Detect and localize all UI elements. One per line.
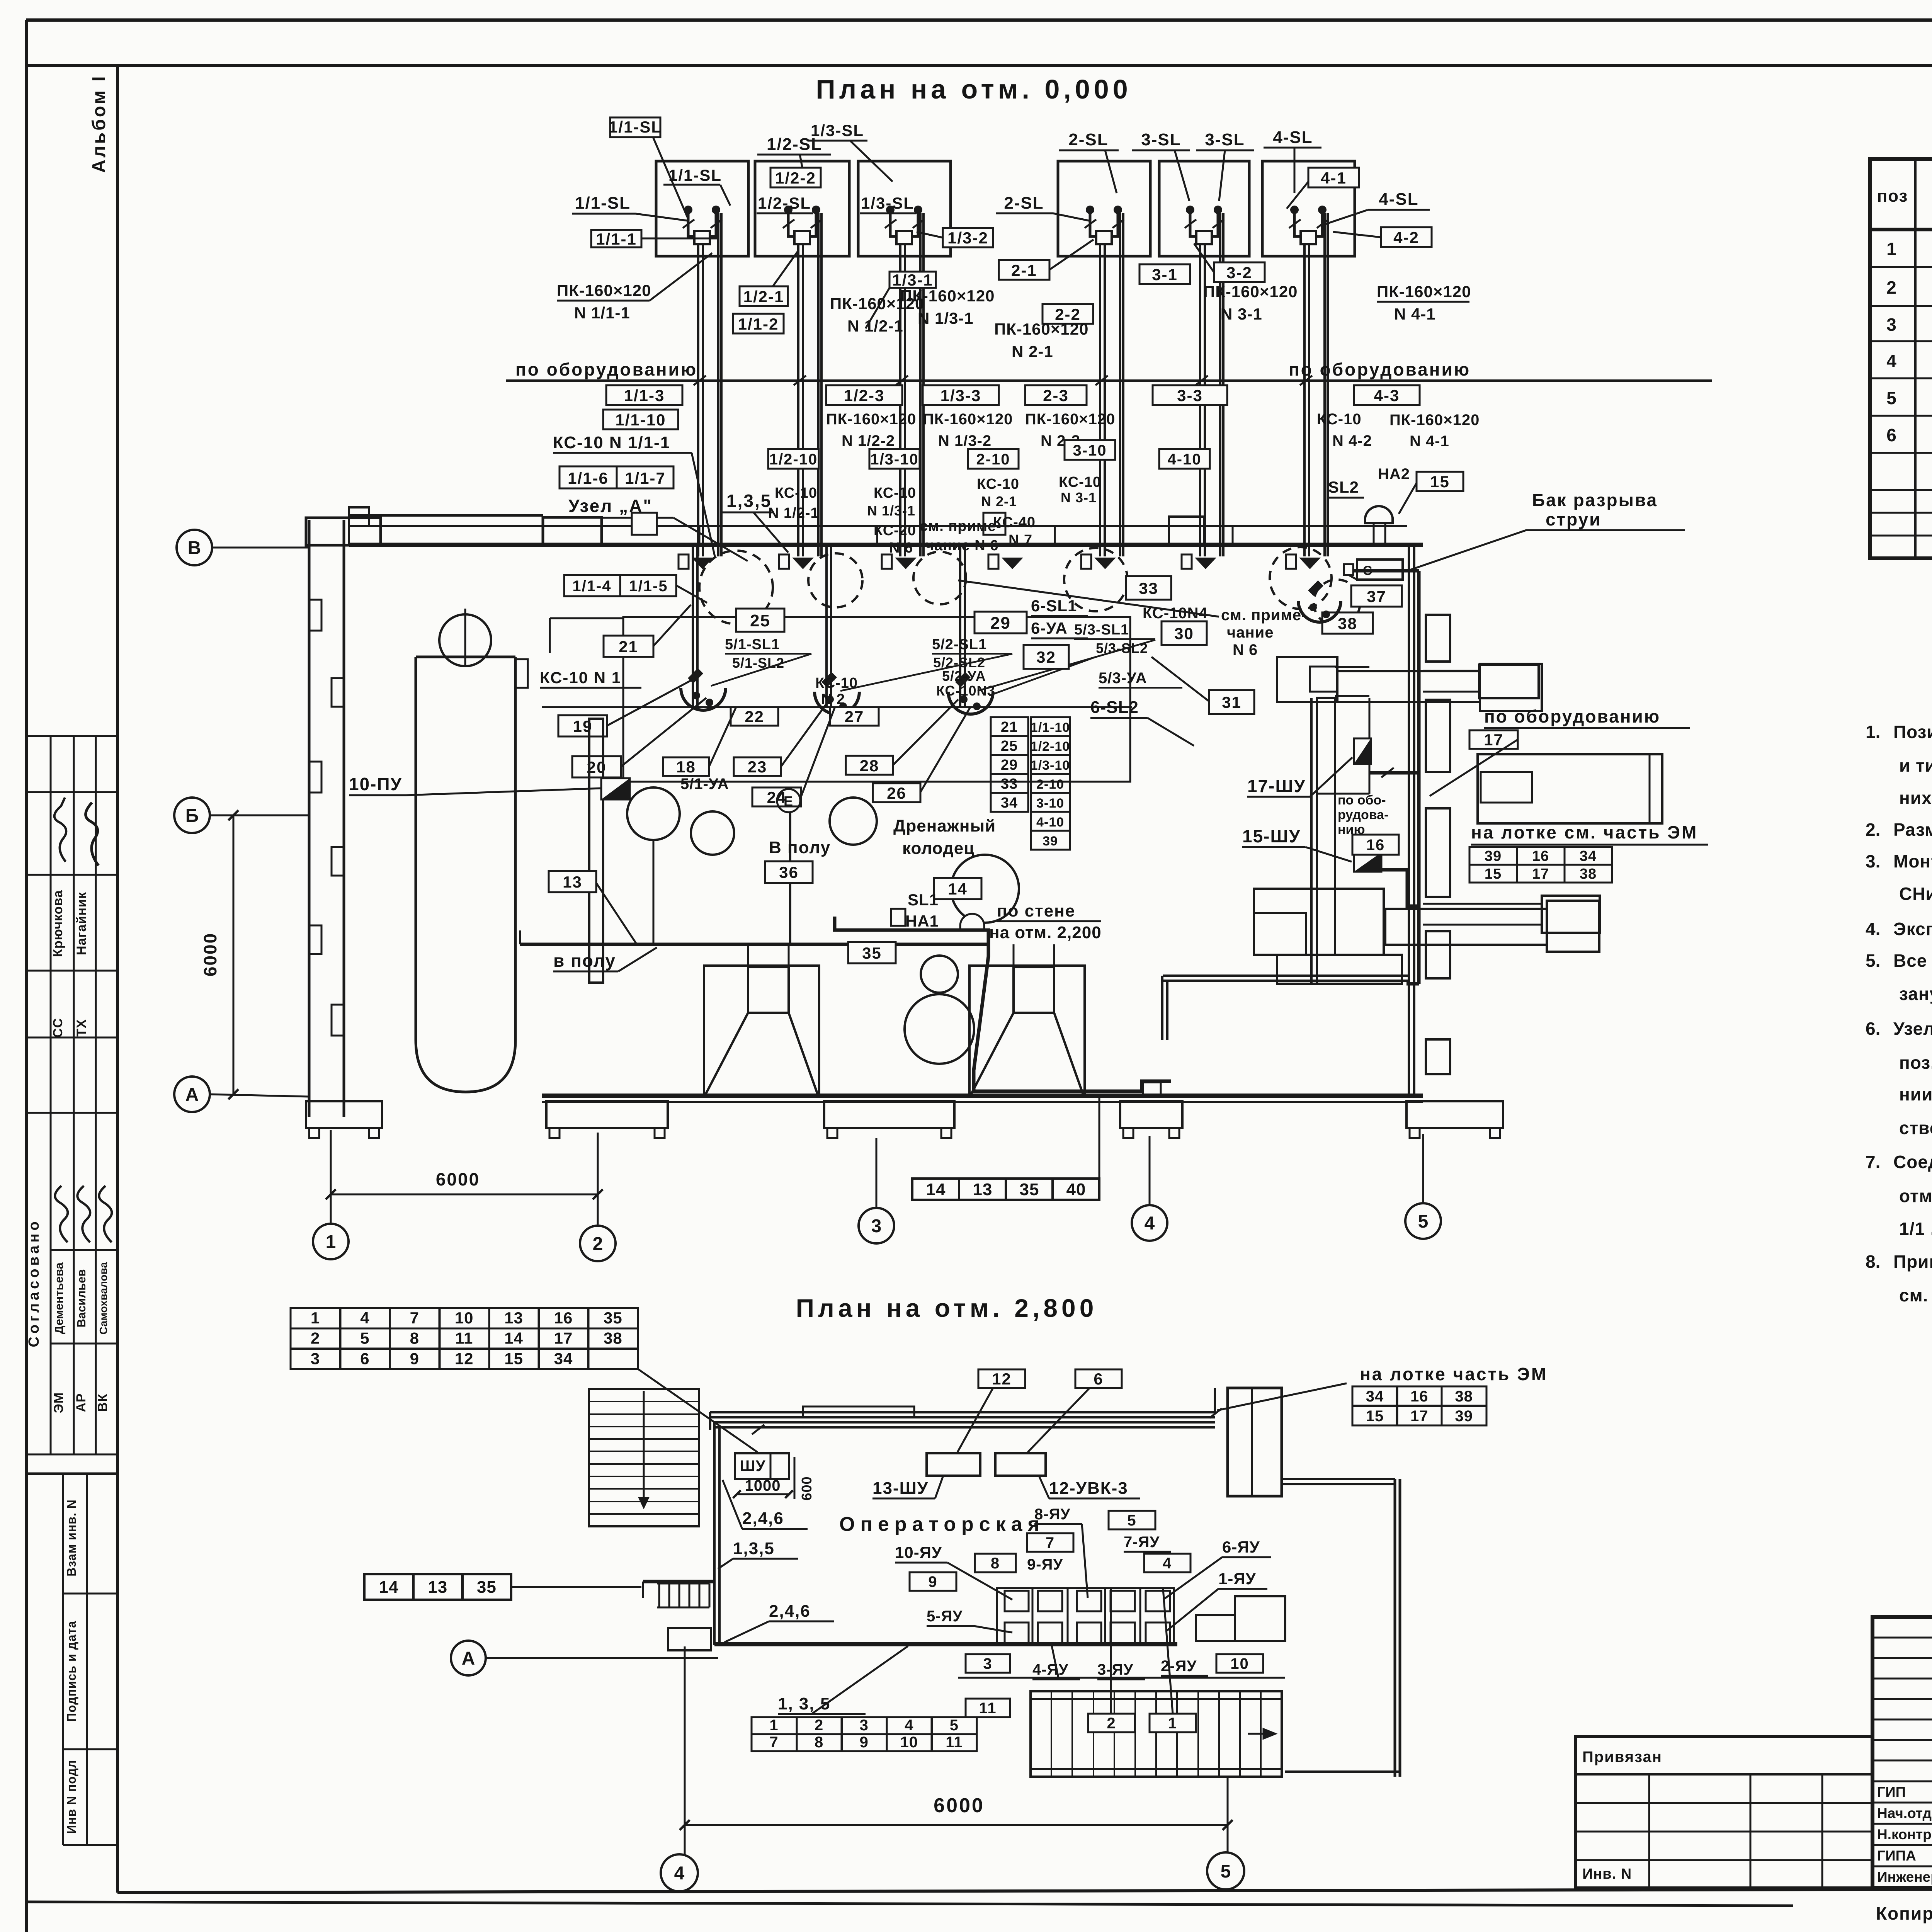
bunker box 6	[1262, 161, 1355, 256]
leader wire	[1175, 150, 1189, 201]
label box 38	[1322, 612, 1373, 634]
svg-text:колодец: колодец	[902, 839, 975, 858]
label box 19	[558, 715, 607, 736]
svg-text:Размещение электрических про: Размещение электрических проводок уточни…	[1893, 820, 1932, 840]
svg-text:35: 35	[1020, 1180, 1039, 1199]
axis circle 3	[859, 1208, 894, 1243]
YaU unit bottom	[1146, 1622, 1170, 1643]
label box 5	[1109, 1511, 1155, 1529]
svg-text:1/3-10: 1/3-10	[1031, 758, 1070, 773]
leader wire	[1028, 1388, 1090, 1452]
label box 4	[1144, 1554, 1190, 1572]
svg-text:N 6: N 6	[1233, 641, 1258, 658]
leader wire	[1294, 148, 1296, 193]
svg-text:по стене: по стене	[997, 901, 1075, 920]
12-UVK rect	[995, 1453, 1046, 1476]
svg-text:27: 27	[845, 707, 864, 726]
band divider	[876, 526, 878, 545]
na lotke table	[1469, 847, 1612, 883]
svg-text:ственно: ственно	[1899, 1118, 1932, 1138]
terminal box	[1081, 554, 1091, 569]
svg-text:КС-10: КС-10	[1059, 474, 1101, 490]
bunker sensor dots	[784, 206, 793, 214]
svg-text:5: 5	[1418, 1211, 1429, 1232]
svg-text:31: 31	[1222, 693, 1242, 711]
porch comb	[658, 1583, 660, 1607]
leader wire	[636, 214, 687, 221]
bunker sensor dots	[1186, 206, 1194, 214]
label box 6	[1075, 1369, 1122, 1388]
drain funnel E	[777, 789, 800, 812]
axis leader 5	[1422, 1134, 1424, 1203]
label box 26	[873, 783, 920, 802]
YaU unit top	[1146, 1591, 1170, 1611]
YaU unit bottom	[1038, 1622, 1062, 1643]
svg-text:1/2-10: 1/2-10	[1031, 739, 1070, 754]
svg-text:6: 6	[1886, 425, 1897, 445]
terminal triangle	[1094, 558, 1116, 569]
svg-text:на отм. 2,200: на отм. 2,200	[989, 923, 1102, 942]
terminal box	[882, 554, 892, 569]
svg-text:3: 3	[983, 1655, 992, 1672]
building bottom wall	[542, 1094, 1423, 1098]
svg-text:6-SL1: 6-SL1	[1031, 597, 1077, 615]
label box 31	[1209, 690, 1254, 714]
label box 22	[731, 707, 778, 726]
leader wire	[1151, 657, 1209, 701]
cable branch 15	[1382, 870, 1419, 906]
svg-text:N 1/3-2: N 1/3-2	[938, 432, 992, 449]
svg-text:5: 5	[360, 1329, 369, 1347]
svg-text:11: 11	[455, 1329, 473, 1347]
column	[589, 719, 603, 983]
svg-text:34: 34	[1366, 1388, 1384, 1405]
svg-text:1/2-SL: 1/2-SL	[758, 194, 811, 212]
crossing tick on legs	[1289, 219, 1301, 228]
terminal triangle	[692, 558, 713, 569]
leader wire	[1305, 847, 1352, 862]
svg-text:5-ЯУ: 5-ЯУ	[927, 1608, 963, 1625]
label 1/1-SL boxed	[610, 117, 660, 137]
axis circle В	[177, 530, 212, 565]
svg-text:3.: 3.	[1866, 851, 1880, 871]
svg-text:1/1-7: 1/1-7	[625, 469, 666, 487]
leader wire	[676, 585, 707, 603]
machine M2	[1480, 664, 1542, 711]
stamp signature	[86, 803, 99, 866]
bottom number table	[752, 1717, 977, 1751]
label box 1/3-10	[869, 449, 920, 469]
leader wire	[673, 518, 748, 561]
cable drop wires	[899, 244, 901, 556]
left wall of site	[308, 520, 311, 1117]
svg-text:ВК: ВК	[95, 1393, 110, 1412]
svg-text:Копир. Косенкова: Копир. Косенкова	[1876, 1903, 1932, 1923]
svg-text:33: 33	[1001, 776, 1018, 792]
svg-text:1/1-3: 1/1-3	[624, 386, 665, 405]
svg-text:17-ШУ: 17-ШУ	[1247, 776, 1306, 796]
dim 6000 bottom plan	[685, 1824, 1228, 1826]
label box 1/2-1	[740, 286, 788, 306]
axis wire B	[212, 547, 309, 549]
drain well circles	[921, 956, 958, 993]
svg-text:6000: 6000	[436, 1169, 480, 1189]
svg-text:4-ЯУ: 4-ЯУ	[1032, 1661, 1068, 1678]
svg-text:3-1: 3-1	[1152, 265, 1178, 284]
svg-text:4-2: 4-2	[1393, 228, 1419, 247]
svg-text:6000: 6000	[934, 1794, 985, 1817]
axis leader 3	[876, 1138, 878, 1208]
machine lower right	[1542, 896, 1600, 933]
svg-text:1/3-1: 1/3-1	[892, 271, 933, 289]
label box 16	[1352, 835, 1399, 855]
device box	[1344, 564, 1353, 575]
label box 12	[978, 1369, 1025, 1388]
svg-text:2-ЯУ: 2-ЯУ	[1161, 1658, 1197, 1675]
riser rect	[1228, 1388, 1282, 1496]
svg-text:них проводок см. листы 7.: них проводок см. листы 7...10.	[1899, 788, 1932, 808]
svg-text:12: 12	[992, 1370, 1012, 1388]
bottom connector	[1285, 1770, 1400, 1773]
svg-text:38: 38	[1455, 1388, 1473, 1405]
drainage well small circle	[830, 798, 877, 845]
svg-text:КС-10 N 1/1-1: КС-10 N 1/1-1	[553, 433, 670, 452]
terminal triangle	[895, 558, 917, 569]
svg-text:по оборудованию: по оборудованию	[515, 359, 697, 379]
wall pilaster	[1426, 700, 1450, 772]
svg-text:и типы кабелей и труб соот: и типы кабелей и труб соответствуют схем…	[1899, 755, 1932, 776]
wall block	[309, 925, 321, 954]
horizontal dimension 6000	[331, 1194, 598, 1196]
leader wire	[866, 288, 889, 328]
axis circle Б	[174, 798, 210, 833]
svg-text:1000: 1000	[745, 1477, 781, 1494]
svg-text:Привязан: Привязан	[1582, 1748, 1662, 1765]
svg-text:1: 1	[1886, 239, 1897, 259]
svg-text:28: 28	[860, 757, 879, 775]
svg-text:Инженер: Инженер	[1877, 1869, 1932, 1885]
svg-text:4-10: 4-10	[1167, 451, 1201, 468]
svg-text:35: 35	[862, 944, 882, 962]
svg-text:чание: чание	[1227, 624, 1274, 641]
floor cable bold path	[835, 917, 1171, 1091]
axis circle 4	[1132, 1205, 1167, 1241]
mixer circle 2	[691, 811, 734, 855]
svg-text:8.: 8.	[1866, 1252, 1880, 1272]
KC junction circle right	[1298, 601, 1341, 622]
svg-text:на лотке см. часть ЭМ: на лотке см. часть ЭМ	[1471, 822, 1698, 842]
leader wire	[753, 512, 788, 553]
svg-text:1/1-10: 1/1-10	[1031, 720, 1070, 735]
svg-text:2: 2	[593, 1234, 603, 1254]
label box 29	[975, 612, 1027, 633]
svg-text:N 1/2-2: N 1/2-2	[842, 432, 895, 449]
17-ShU cabinet	[1354, 738, 1371, 764]
wire 2	[1110, 1589, 1112, 1714]
svg-text:23: 23	[748, 758, 767, 776]
mixer block	[1254, 889, 1384, 955]
axis circle А	[174, 1077, 210, 1112]
10-PU cabinet symbol	[601, 778, 630, 799]
below room band	[958, 1677, 1285, 1679]
svg-text:План на отм. 0,000: План на отм. 0,000	[816, 74, 1131, 104]
wall pilaster	[1426, 1039, 1450, 1074]
svg-text:16: 16	[1532, 848, 1549, 864]
svg-text:12: 12	[455, 1349, 474, 1367]
svg-text:N 1/2-1: N 1/2-1	[768, 505, 819, 521]
svg-text:Все нормально нетоковедущие: Все нормально нетоковедущие части средст…	[1893, 951, 1932, 971]
KC junction circle	[681, 688, 726, 710]
svg-text:N 4-2: N 4-2	[1332, 432, 1372, 449]
SL1 box symbol	[891, 909, 905, 926]
svg-text:А: А	[462, 1648, 475, 1669]
wall block	[309, 762, 321, 793]
svg-text:поз. 1/2; 1/3; 2; 3; 4 с заме: поз. 1/2; 1/3; 2; 3; 4 с заменой впереди…	[1899, 1053, 1932, 1073]
label box 1/3-3	[923, 385, 999, 405]
right wall	[1394, 1479, 1396, 1777]
room partitions	[692, 545, 694, 707]
svg-text:КС-10N3: КС-10N3	[936, 683, 995, 699]
svg-text:см. приме-: см. приме-	[1221, 607, 1307, 624]
svg-text:13: 13	[973, 1180, 993, 1199]
label box 1/1-1	[591, 230, 641, 247]
ref table 14-13-35	[364, 1574, 511, 1600]
room 2 partition	[1163, 975, 1409, 977]
svg-text:3: 3	[1886, 315, 1897, 335]
svg-text:8: 8	[991, 1555, 1000, 1572]
svg-text:4: 4	[1145, 1213, 1155, 1234]
svg-text:1/1-SL: 1/1-SL	[575, 194, 631, 213]
svg-text:N 3-1: N 3-1	[1221, 305, 1262, 323]
axis leader 5b	[1227, 1777, 1229, 1852]
svg-text:12-УВК-3: 12-УВК-3	[1049, 1479, 1128, 1498]
svg-text:15: 15	[1430, 473, 1450, 491]
leader wire	[720, 185, 730, 206]
axis circle 1	[313, 1224, 349, 1259]
svg-text:1: 1	[326, 1232, 336, 1252]
svg-text:Позиции монтируемых приборов: Позиции монтируемых приборов и аппаратур…	[1893, 722, 1932, 742]
band divider	[1232, 526, 1234, 545]
svg-text:40: 40	[1066, 1180, 1086, 1199]
svg-text:3-SL: 3-SL	[1205, 130, 1245, 149]
wire 25 to 21	[550, 617, 623, 619]
crossing tick	[896, 376, 908, 385]
svg-text:1/1-1: 1/1-1	[596, 230, 637, 248]
svg-text:А: А	[185, 1085, 199, 1105]
svg-text:4: 4	[1886, 351, 1897, 371]
svg-text:СНиП 3.05. 07-85.: СНиП 3.05. 07-85.	[1899, 884, 1932, 904]
svg-text:ГИПА: ГИПА	[1877, 1848, 1916, 1864]
svg-text:6-УА: 6-УА	[1031, 619, 1068, 637]
svg-text:1/2-1: 1/2-1	[743, 287, 784, 306]
label box 37	[1351, 585, 1402, 607]
label box 7	[1027, 1533, 1073, 1552]
svg-text:10-ЯУ: 10-ЯУ	[895, 1543, 942, 1561]
title block grid	[1872, 1617, 1932, 1888]
leader wire	[1053, 213, 1089, 221]
cable drop wires	[1099, 244, 1101, 556]
hatched platform	[1031, 1691, 1282, 1777]
svg-text:4-3: 4-3	[1374, 386, 1400, 405]
table leader wire	[1099, 1097, 1100, 1179]
svg-text:3-10: 3-10	[1036, 796, 1064, 811]
svg-text:8: 8	[410, 1329, 419, 1347]
svg-text:Н.контр.: Н.контр.	[1877, 1827, 1932, 1842]
svg-text:6: 6	[360, 1349, 369, 1367]
svg-text:1/2-3: 1/2-3	[844, 386, 885, 405]
svg-text:37: 37	[1367, 587, 1386, 605]
svg-text:КС-10: КС-10	[1317, 411, 1362, 428]
bunker sensor dots	[1290, 206, 1299, 214]
svg-text:ПК-160×120: ПК-160×120	[994, 320, 1089, 338]
left stamp strip	[26, 736, 117, 1845]
leader wire	[596, 883, 637, 944]
bunker outlet valve	[890, 210, 918, 236]
label box 2-1	[999, 260, 1049, 280]
svg-text:Б: Б	[185, 806, 199, 826]
svg-text:1/1-2: 1/1-2	[738, 315, 779, 333]
svg-text:2.: 2.	[1866, 820, 1880, 840]
building right wall	[1408, 545, 1410, 1098]
svg-text:9: 9	[410, 1349, 419, 1367]
crossing tick on legs	[885, 219, 896, 228]
label box 14	[934, 878, 981, 899]
leader wire	[1167, 1589, 1218, 1631]
svg-text:6-ЯУ: 6-ЯУ	[1222, 1538, 1260, 1556]
machine M1	[1277, 657, 1337, 702]
svg-text:1: 1	[311, 1309, 320, 1327]
leader wire from table	[638, 1369, 757, 1452]
svg-text:N 1/3-1: N 1/3-1	[918, 309, 974, 327]
bunker outlet valve	[1190, 210, 1218, 236]
svg-text:КС-10 N 1: КС-10 N 1	[540, 668, 621, 687]
band notch	[349, 507, 369, 526]
svg-text:НА2: НА2	[1378, 466, 1410, 483]
svg-text:18: 18	[676, 758, 696, 776]
svg-text:2-SL: 2-SL	[1068, 130, 1108, 149]
terminal triangle	[1195, 558, 1216, 569]
svg-text:39: 39	[1455, 1408, 1473, 1425]
terminal box	[679, 554, 689, 569]
label box 13	[549, 871, 596, 892]
leader wire	[1148, 718, 1194, 746]
svg-text:3-ЯУ: 3-ЯУ	[1097, 1661, 1133, 1678]
porch details	[643, 1580, 714, 1583]
svg-text:5: 5	[1886, 388, 1897, 408]
svg-text:7: 7	[1046, 1534, 1055, 1551]
mixer wire	[653, 840, 655, 944]
crossing tick	[1300, 376, 1312, 385]
tray tick	[1209, 1408, 1222, 1418]
leader wire	[1325, 210, 1368, 224]
wall duct rect	[803, 1406, 914, 1417]
svg-text:Васильев: Васильев	[75, 1269, 88, 1328]
svg-text:1/1-SL: 1/1-SL	[668, 166, 722, 184]
svg-text:13: 13	[563, 873, 582, 891]
svg-text:17: 17	[1410, 1408, 1429, 1425]
label box 1	[1150, 1714, 1196, 1732]
bunker box 4	[1058, 161, 1150, 256]
label box 23	[734, 757, 781, 776]
svg-text:КС-10: КС-10	[977, 476, 1019, 492]
svg-text:АР: АР	[74, 1393, 88, 1412]
svg-text:1/3-3: 1/3-3	[940, 386, 981, 405]
bunker box 3	[858, 161, 951, 256]
label box 1/1-3	[606, 385, 682, 405]
leader wire	[1287, 182, 1308, 209]
label box 1/3-2	[943, 228, 993, 247]
svg-text:ПК-160×120: ПК-160×120	[923, 411, 1013, 428]
svg-text:Дементьева: Дементьева	[52, 1262, 66, 1334]
svg-text:4: 4	[360, 1309, 369, 1327]
band divider	[699, 526, 701, 545]
wire to SL1	[789, 812, 791, 944]
terminal box	[1182, 554, 1192, 569]
svg-text:рудова-: рудова-	[1338, 808, 1388, 822]
svg-text:5/2-УА: 5/2-УА	[942, 668, 986, 684]
svg-text:отм. 2,400 от уровня пола,: отм. 2,400 от уровня пола, вторичные пре…	[1899, 1186, 1932, 1206]
svg-text:25: 25	[1001, 738, 1018, 754]
svg-text:32: 32	[1036, 648, 1056, 666]
axis wire А	[210, 1094, 309, 1097]
axis circle 5	[1405, 1203, 1441, 1239]
leader wire	[811, 1646, 908, 1714]
svg-text:21: 21	[619, 638, 638, 656]
svg-text:1/3-SL: 1/3-SL	[861, 194, 914, 212]
svg-text:4-1: 4-1	[1321, 169, 1347, 187]
svg-text:22: 22	[745, 707, 764, 726]
svg-text:1/1 ... 1/3 SL1,2 ... 4SL1;: 1/1 ... 1/3 SL1,2 ... 4SL1; 1/1 ... 1/3 …	[1899, 1219, 1932, 1239]
bunker sensor dots	[1086, 206, 1094, 214]
label box 1/1-4 1/1-5	[564, 575, 676, 596]
svg-text:1: 1	[769, 1717, 778, 1734]
svg-text:36: 36	[779, 863, 799, 881]
svg-text:1, 3, 5: 1, 3, 5	[778, 1694, 830, 1713]
svg-text:N 4-1: N 4-1	[1394, 305, 1436, 323]
label box 24	[752, 787, 801, 806]
svg-text:см. раздел ЭМ.: см. раздел ЭМ.	[1899, 1285, 1932, 1305]
label box 10	[1216, 1654, 1263, 1673]
svg-text:5/3-SL1: 5/3-SL1	[1074, 622, 1129, 638]
leader wire	[1406, 530, 1526, 571]
svg-text:4: 4	[905, 1717, 913, 1734]
svg-text:14: 14	[926, 1180, 946, 1199]
svg-text:10: 10	[1230, 1655, 1249, 1672]
svg-text:КС-10: КС-10	[775, 485, 817, 501]
leader wire	[957, 1388, 993, 1452]
label box 15	[1417, 472, 1463, 491]
svg-text:11: 11	[946, 1734, 963, 1751]
svg-text:13: 13	[504, 1309, 523, 1327]
svg-text:1/3-10: 1/3-10	[870, 451, 918, 468]
duct right	[1385, 909, 1547, 945]
svg-text:1/2-10: 1/2-10	[769, 451, 818, 468]
leader wire	[1039, 1477, 1049, 1498]
svg-text:4-10: 4-10	[1036, 815, 1064, 830]
svg-text:39: 39	[1043, 834, 1058, 849]
YaU unit bottom	[1077, 1622, 1101, 1643]
svg-text:ПК-160×120: ПК-160×120	[1203, 282, 1298, 301]
equipment platform outline	[623, 617, 1130, 782]
svg-text:Узел „А" выполнен для бункер: Узел „А" выполнен для бункера поз 1/1 и …	[1893, 1019, 1932, 1039]
svg-text:1,3,5: 1,3,5	[726, 491, 772, 511]
hopper room B	[969, 966, 1085, 1096]
label box 18	[663, 757, 709, 776]
svg-text:Нач.отд: Нач.отд	[1877, 1805, 1932, 1821]
mixer circle	[627, 787, 680, 840]
YaU unit top	[1038, 1591, 1062, 1611]
svg-text:5/1-SL2: 5/1-SL2	[732, 655, 784, 671]
